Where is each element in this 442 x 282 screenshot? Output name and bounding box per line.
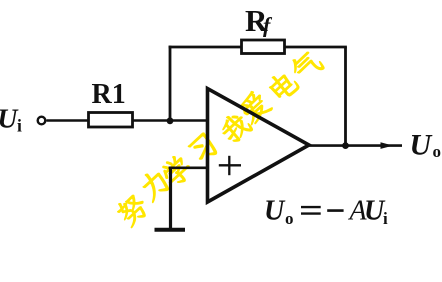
- svg-text:i: i: [17, 116, 22, 136]
- svg-text:U: U: [410, 129, 433, 162]
- svg-text:R1: R1: [92, 79, 126, 110]
- svg-text:o: o: [285, 209, 294, 228]
- svg-text:o: o: [433, 142, 442, 161]
- svg-text:i: i: [383, 209, 388, 228]
- svg-text:U: U: [264, 196, 286, 227]
